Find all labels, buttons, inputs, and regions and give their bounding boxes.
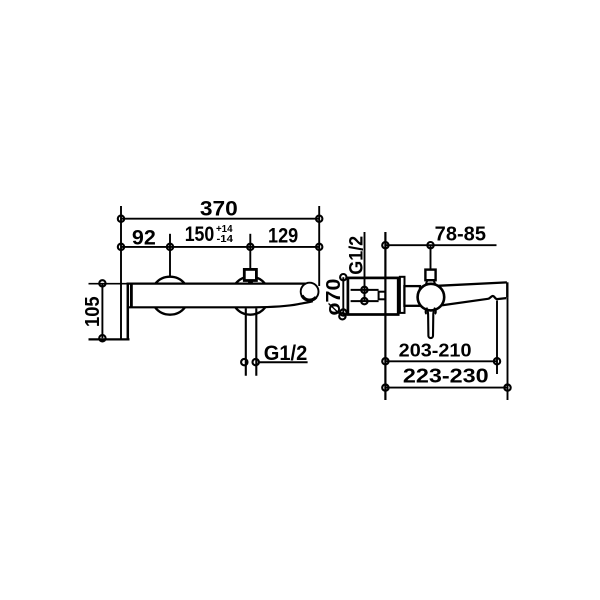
lever ear left (side) [426,309,428,314]
svg-text:370: 370 [200,198,238,221]
spout end ring thick crescent [302,296,316,301]
dia70 marker bottom [340,309,346,315]
G1/2 marker left (front) [241,359,247,365]
dimension line 203-210 [385,360,497,362]
extension line tip (side) [507,298,509,400]
svg-text:G1/2: G1/2 [264,342,308,365]
extension line 105 bottom [89,338,130,340]
marker 223-230 left [382,384,388,390]
spout end ring [301,283,319,301]
extension line knob (side) [430,245,432,269]
valve body (side) [404,286,420,306]
marker 92 left [118,244,124,250]
svg-text:105: 105 [82,296,104,327]
spout bottom line with aerator notch (side) [441,296,507,306]
svg-text:203-210: 203-210 [399,341,472,361]
supply marker upper (side) [361,287,367,293]
extension stub x=170 [169,234,171,277]
marker 370 right [316,216,322,222]
svg-text:223-230: 223-230 [403,366,489,388]
marker 78-85 right [427,242,433,248]
svg-text:150: 150 [185,223,215,246]
extension line right (x=319.2) [318,206,320,286]
supply connection line lower (side) [351,300,379,302]
marker 223-230 right [504,384,510,390]
escutcheon left (front) top arc [155,277,184,284]
diverter knob neck (front) [248,281,253,284]
spout top line (side) [438,282,507,285]
dia70 marker bottom2 [339,313,345,319]
supply pipe left edge (front) [245,308,247,376]
svg-text:-14: -14 [217,233,234,245]
marker 203-210 left [382,358,388,364]
marker 105 top [99,280,105,286]
extension line 105 top [89,283,128,285]
supply marker lower (side) [361,298,367,304]
escutcheon center (front) top arc [236,277,265,284]
in-wall housing box [348,278,398,315]
dia70 dimension line (side) [342,277,344,315]
diverter knob square (side) [425,270,435,281]
body left edge (front) [130,284,133,307]
supply pipe right edge (front) [255,308,257,376]
marker 129 right [316,244,322,250]
handle lever (side) [426,308,435,339]
svg-text:129: 129 [268,224,298,247]
knob neck left (side) [426,280,427,283]
extension line aerator (side) [496,301,498,375]
spout bar top edge [127,282,306,284]
dia70 marker top [340,274,346,280]
dimension line 370 [121,218,319,220]
supply connection line upper (side) [351,289,379,291]
connection stub box (side) [379,292,386,300]
dimension line 105 (vertical) [101,283,103,338]
svg-text:ø70: ø70 [323,279,345,316]
handle ball (side) [418,284,445,311]
G1/2 leader line (side) [364,232,366,301]
extension line left (wall, x=121) [120,206,122,339]
diverter knob square (front) [244,269,256,280]
svg-text:78-85: 78-85 [435,224,486,246]
lever ear right (side) [434,309,436,314]
marker 150/129 [247,244,253,250]
knob neck right (side) [434,280,435,283]
G1/2 leader underline (front) [259,361,308,363]
dimension line 223-230 [385,387,507,389]
dimension line 92/150/129 [121,246,319,248]
escutcheon center (front) bottom arc [235,307,265,314]
svg-text:92: 92 [132,227,156,250]
wall plate edge (front) [127,284,130,340]
marker 203-210 right [494,358,500,364]
escutcheon edge-on (side) [400,277,405,313]
spout tip face (side) [506,282,508,298]
marker 105 bottom [99,335,105,341]
wall line (side) [384,232,386,400]
extension stub x=250.3 [249,234,251,269]
G1/2 marker right (front) [253,359,259,365]
svg-text:G1/2: G1/2 [347,236,368,275]
marker 78-85 left [382,242,388,248]
escutcheon left (front) bottom arc [155,307,185,314]
marker 92/150 [167,244,173,250]
dimension line 78-85 [385,244,496,246]
spout bar bottom edge with curve to end [127,301,313,307]
marker 370 left [118,216,124,222]
